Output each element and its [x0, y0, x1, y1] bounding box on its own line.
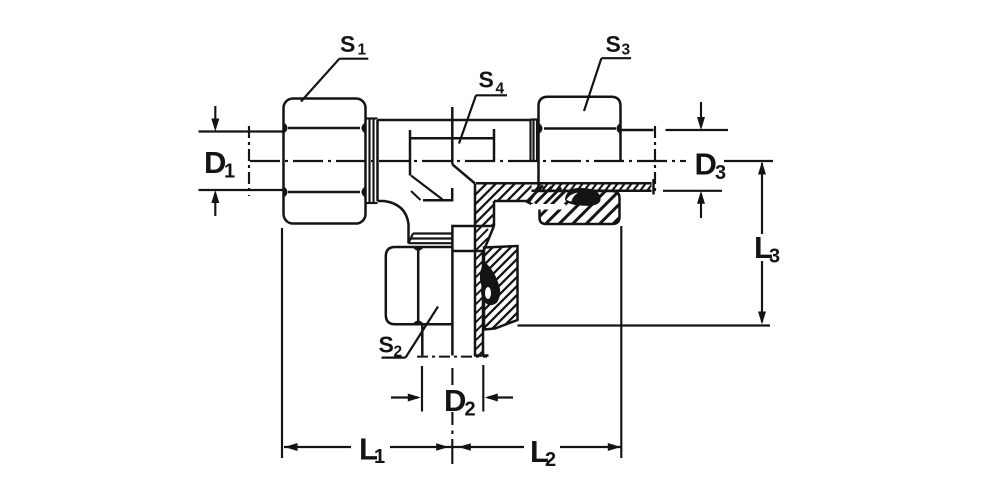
nut S2 (bottom) outline [386, 247, 453, 324]
svg-text:3: 3 [715, 162, 726, 184]
washer right (between body and nut S3) [531, 120, 539, 162]
tube bottom (left half external) [421, 324, 424, 355]
body hatch left corner [411, 176, 443, 201]
svg-text:1: 1 [224, 161, 235, 183]
svg-text:1: 1 [358, 42, 367, 59]
ferrule bottom (sectioned, hatched) [484, 246, 518, 330]
body hatch L-region right of branch [470, 170, 560, 267]
svg-text:S: S [606, 31, 621, 57]
dimension D1 [199, 106, 284, 216]
thread gap white notch [531, 204, 566, 210]
tube band bottom line [532, 190, 652, 193]
svg-text:S: S [379, 332, 394, 358]
bore bottom line (body through tube end) [476, 182, 652, 185]
washer left (between nut S1 and body) [366, 119, 378, 204]
dimension D3 [655, 102, 728, 218]
dimension L3 [518, 163, 771, 326]
svg-text:2: 2 [465, 399, 476, 421]
svg-text:3: 3 [769, 246, 780, 268]
ferrule blob right (black seal) [565, 188, 601, 206]
svg-text:D: D [695, 147, 717, 182]
nut S1 [284, 99, 366, 224]
nut S3 thread lip hatch [526, 186, 561, 205]
nut S3 chamfer eyes [538, 123, 621, 134]
dimensions L1 and L2 [282, 226, 621, 464]
svg-text:S: S [479, 67, 494, 93]
branch bottom centerline (dash-dot horizontal at tube end) [417, 356, 487, 358]
nut S1 chamfer eyes [283, 123, 366, 198]
svg-text:3: 3 [622, 42, 631, 59]
svg-text:D: D [444, 383, 466, 418]
washer bottom (between body and nut S2) [409, 234, 453, 244]
svg-text:1: 1 [374, 446, 385, 468]
svg-text:S: S [340, 31, 355, 57]
ferrule blob bottom (black seal) [480, 264, 500, 305]
body section-cut edge at branch [423, 107, 494, 356]
centerline main horizontal axis [250, 160, 773, 162]
tube bottom right wall (sectioned strip) [453, 184, 495, 356]
tube band hatch (right tube bottom wall, sectioned) [531, 178, 664, 196]
tube right (outside nut) [621, 130, 654, 195]
svg-text:2: 2 [545, 449, 556, 471]
dimension D2 [391, 365, 513, 434]
nut S3 sectioned block [529, 191, 620, 224]
nut S3 (right) outline [539, 97, 621, 191]
tee body outline [378, 120, 531, 244]
nut S2 chamfer eyes [413, 246, 424, 325]
